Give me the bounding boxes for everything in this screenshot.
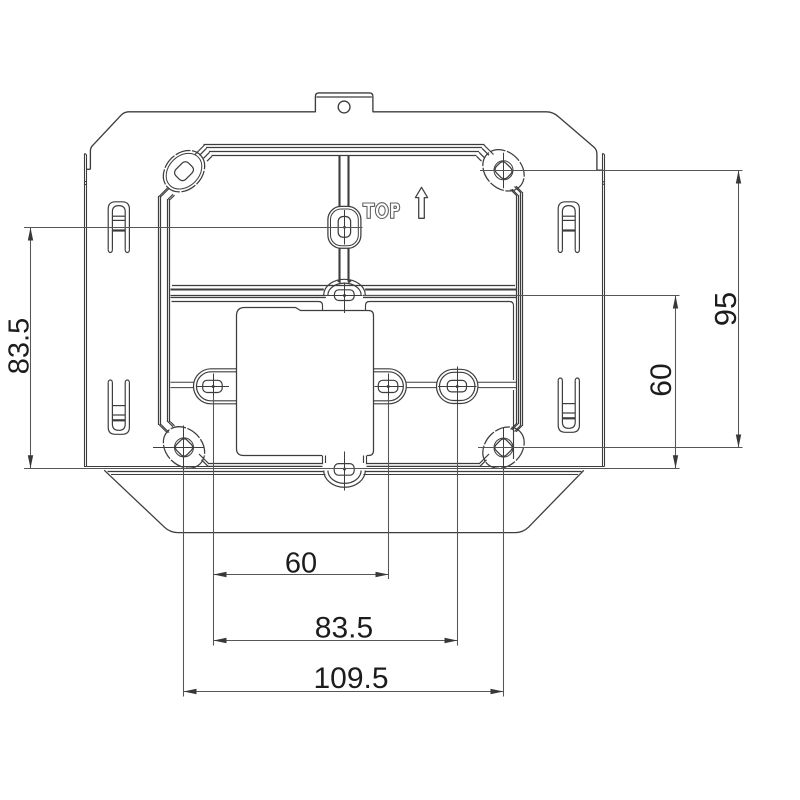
svg-text:60: 60 <box>645 363 678 396</box>
svg-text:83.5: 83.5 <box>4 318 36 374</box>
svg-text:95: 95 <box>708 292 743 326</box>
svg-text:109.5: 109.5 <box>313 662 388 695</box>
svg-text:60: 60 <box>285 548 317 580</box>
svg-text:83.5: 83.5 <box>315 612 373 645</box>
